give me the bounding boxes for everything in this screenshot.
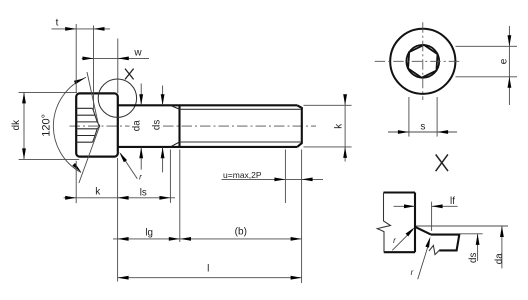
svg-text:120°: 120° [40,114,52,137]
node r leader 2 detail [418,243,429,279]
svg-text:ds: ds [152,120,163,130]
wire 120deg extension upper [87,72,99,126]
node r leader 1 detail [392,230,413,251]
svg-text:t: t [56,18,59,29]
svg-text:s: s [420,122,425,133]
svg-text:l: l [207,264,209,275]
node detail head corner piece [377,193,415,253]
node 120deg arc arrowhead bottom [72,163,82,174]
svg-text:e: e [498,58,509,64]
node dimension e [456,26,518,105]
svg-text:lf: lf [450,196,455,207]
node dimension s [388,97,457,137]
node dimension b [190,238,302,240]
node dimension da detail [501,226,503,268]
wire end view centerline horizontal [375,60,463,62]
svg-text:dk: dk [11,120,22,130]
node 120deg arc arrowhead top [74,76,86,84]
node dimension ds detail [477,234,479,261]
node label X main [125,69,134,80]
wire thread root top [180,108,301,110]
svg-text:lg: lg [145,228,153,239]
node head outline [76,93,118,156]
svg-text:r: r [393,236,396,245]
svg-text:k: k [334,123,345,129]
node dimension lf [394,202,458,231]
node dimension da main [140,84,142,170]
svg-text:r: r [139,173,142,182]
node shank and thread outline [118,105,302,147]
node label X detail [436,154,448,171]
node leader u=max,2P [222,178,324,180]
svg-text:r: r [411,268,414,277]
node fillet r leader main view [121,154,138,179]
node 120deg dimension arc [53,77,86,172]
node end view socket circle [406,45,439,78]
node dimension lg [113,150,190,242]
wire thread runout bottom [171,142,180,147]
svg-text:u=max,2P: u=max,2P [223,170,262,180]
wire thread root bottom [180,141,301,143]
wire detail da extension [416,225,508,227]
svg-text:k: k [95,187,101,198]
node dimension l [118,150,302,284]
wire end view centerline vertical [422,22,424,100]
wire centerline main axis [70,125,130,127]
svg-text:da: da [131,120,142,131]
node dimension k head [64,150,175,282]
node dimension dk [19,92,80,159]
node detail shank piece [429,235,459,255]
svg-text:(b): (b) [235,226,247,237]
wire detail ds extension [461,233,483,235]
node hex socket side-view lines [77,108,100,142]
node dimension t [52,24,111,111]
node dimension w [82,39,149,94]
node detail fillet slope [415,227,431,235]
wire thread runout top [171,106,180,110]
node end view hexagon [408,45,437,78]
node end view outer circle [390,29,455,94]
wire 120deg extension lower [79,126,100,183]
svg-text:ds: ds [468,253,479,263]
svg-text:da: da [494,253,505,264]
node detail circle X [98,79,136,117]
node dimension ds main [162,86,164,173]
node dimension k right [304,96,352,162]
svg-text:w: w [133,48,142,59]
svg-text:ls: ls [140,188,147,199]
